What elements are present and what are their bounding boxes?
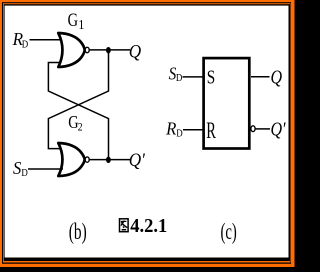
svg-text:4.2.1: 4.2.1 [130,216,167,238]
wire G1 output junction to G2 upper input (cross wire) [48,50,108,149]
svg-text:Q: Q [271,66,283,88]
junction node Q [106,47,111,53]
Q' output bubble (right) [251,126,255,132]
svg-text:D: D [176,73,182,85]
wire RD to G1 input [30,39,64,41]
svg-text:Q: Q [129,41,141,62]
wire SD to S input [183,76,204,78]
wire Q output (right) [251,76,270,78]
svg-text:R: R [206,119,216,144]
svg-text:S: S [13,159,22,179]
G1 output bubble [85,47,89,52]
wire G1 output to Q [89,49,130,51]
NOR gate G1 [58,33,84,67]
svg-text:S: S [207,66,215,88]
svg-text:(c): (c) [221,220,237,245]
svg-text:2: 2 [78,121,83,134]
wire Q' output (right) [256,128,270,130]
svg-text:D: D [176,128,182,140]
wire SD to G2 input [28,168,63,170]
svg-text:D: D [22,39,28,51]
wire RD to R input [183,129,203,131]
junction node Q' [106,157,111,163]
wire G2 output to Q' [89,159,130,161]
svg-text:Q′: Q′ [129,149,146,170]
svg-text:G: G [68,9,78,30]
svg-text:Q′: Q′ [271,118,287,140]
svg-text:R: R [165,119,177,139]
wire G2 output to G1 lower input (cross wire) [48,63,108,160]
G2 output bubble [85,157,89,162]
caption glyph 图 [120,219,129,232]
latch block U1 [204,58,250,148]
svg-text:(b): (b) [69,220,87,245]
NOR gate G2 [58,143,84,176]
svg-text:1: 1 [78,16,84,32]
svg-text:D: D [21,167,27,179]
